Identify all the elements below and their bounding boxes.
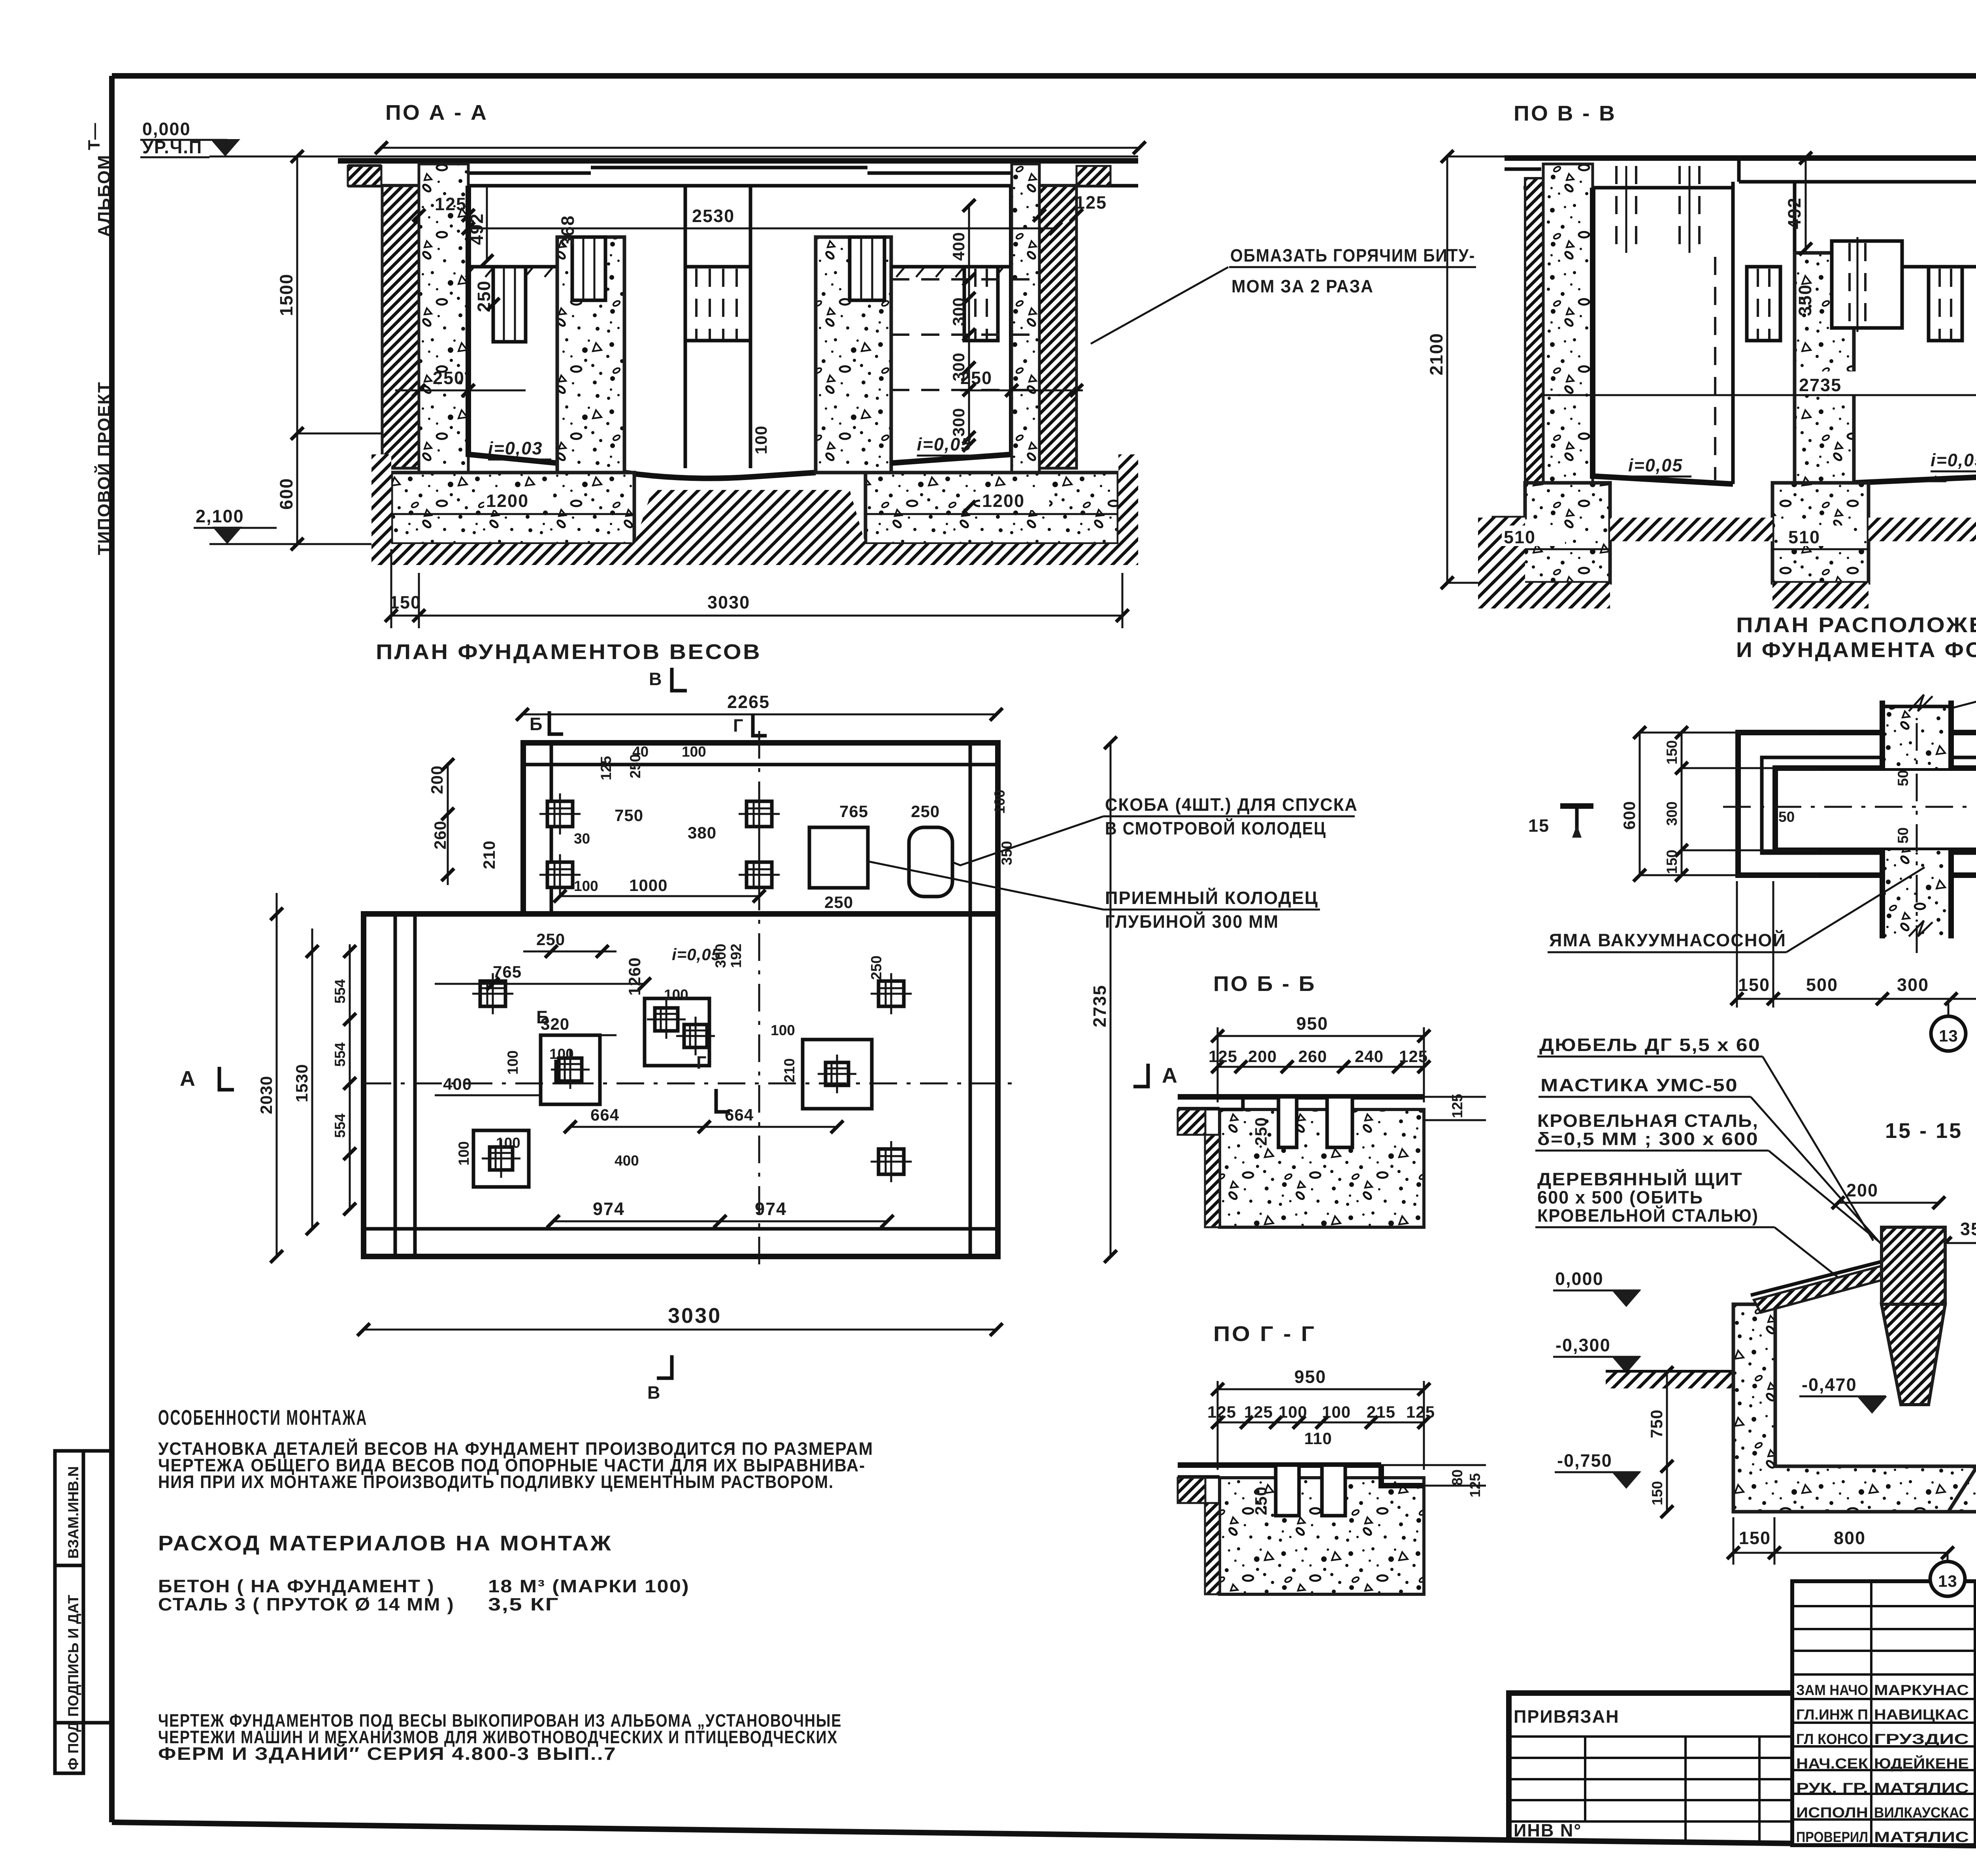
svg-text:100: 100 bbox=[752, 426, 770, 454]
svg-text:2530: 2530 bbox=[692, 206, 735, 226]
leaders from notes to curb bbox=[1763, 1057, 1873, 1241]
svg-text:i=0,03: i=0,03 bbox=[488, 438, 543, 458]
svg-text:192: 192 bbox=[728, 944, 744, 968]
A-A right footing concrete bbox=[865, 473, 1118, 544]
A-A top slab left hatch block bbox=[348, 166, 381, 186]
A-A left pit ledge bbox=[468, 265, 557, 269]
B-B top surface bbox=[1243, 1094, 1424, 1100]
svg-text:Г: Г bbox=[733, 716, 744, 736]
A-A left depth dimension chain bbox=[296, 156, 298, 544]
sheet frame top border bbox=[112, 73, 1976, 79]
svg-text:ОБМАЗАТЬ ГОРЯЧИМ БИТУ-: ОБМАЗАТЬ ГОРЯЧИМ БИТУ- bbox=[1230, 245, 1475, 266]
svg-text:2265: 2265 bbox=[727, 692, 770, 712]
svg-text:2,100: 2,100 bbox=[196, 506, 244, 526]
svg-text:ВЗАМ.ИНВ.N: ВЗАМ.ИНВ.N bbox=[65, 1466, 81, 1559]
A-A top slab band bbox=[348, 184, 1138, 188]
pit inner wall rect bbox=[1762, 757, 1976, 853]
svg-text:300: 300 bbox=[1897, 975, 1929, 995]
svg-text:СТАЛЬ 3 ( ПРУТОК Ø 14 ММ ): СТАЛЬ 3 ( ПРУТОК Ø 14 ММ ) bbox=[158, 1594, 454, 1614]
V-V middle wall left edge bbox=[1731, 182, 1735, 484]
svg-text:ПО А - А: ПО А - А bbox=[385, 101, 488, 124]
svg-text:2100: 2100 bbox=[1426, 333, 1446, 375]
svg-text:664: 664 bbox=[590, 1106, 619, 1124]
svg-text:Б: Б bbox=[530, 714, 543, 734]
svg-text:13: 13 bbox=[1938, 1572, 1957, 1590]
svg-text:ПОДПИСЬ И ДАТ: ПОДПИСЬ И ДАТ bbox=[65, 1595, 81, 1717]
svg-text:510: 510 bbox=[1504, 527, 1536, 547]
svg-text:-0,750: -0,750 bbox=[1557, 1450, 1612, 1471]
B-B concrete block bbox=[1220, 1109, 1424, 1227]
A-A central floor line bbox=[624, 473, 816, 478]
svg-text:1200: 1200 bbox=[486, 491, 529, 511]
svg-text:ДЮБЕЛЬ ДГ 5,5 х 60: ДЮБЕЛЬ ДГ 5,5 х 60 bbox=[1539, 1035, 1761, 1055]
stamp tie line mid bbox=[83, 1721, 112, 1725]
svg-text:125: 125 bbox=[1209, 1047, 1237, 1066]
svg-text:100: 100 bbox=[574, 878, 598, 894]
svg-text:АЛЬБОМ: АЛЬБОМ bbox=[94, 154, 114, 237]
svg-text:0,000: 0,000 bbox=[1555, 1269, 1604, 1289]
svg-text:ФЕРМ И ЗДАНИЙ″ СЕРИЯ 4.800-3: ФЕРМ И ЗДАНИЙ″ СЕРИЯ 4.800-3 ВЫП..7 bbox=[158, 1744, 617, 1764]
A-A right dim chain 400-300-300-300 bbox=[968, 205, 970, 445]
svg-text:0,000: 0,000 bbox=[142, 119, 191, 139]
svg-text:3030: 3030 bbox=[707, 592, 750, 612]
plan upper inner lines bbox=[550, 743, 553, 914]
stamp column box bbox=[55, 1451, 83, 1773]
svg-text:300: 300 bbox=[949, 352, 968, 381]
svg-text:ПРИЕМНЫЙ КОЛОДЕЦ: ПРИЕМНЫЙ КОЛОДЕЦ bbox=[1105, 888, 1318, 908]
svg-text:150: 150 bbox=[1738, 975, 1770, 995]
svg-text:100: 100 bbox=[549, 1046, 574, 1062]
A-A center-right pier concrete bbox=[816, 237, 891, 473]
sheet frame left border bbox=[109, 76, 115, 1822]
svg-text:ТИПОВОЙ ПРОЕКТ: ТИПОВОЙ ПРОЕКТ bbox=[94, 381, 114, 555]
pit left dim chain 600 bbox=[1639, 733, 1641, 875]
svg-text:50: 50 bbox=[1895, 827, 1911, 844]
svg-text:100: 100 bbox=[505, 1050, 521, 1075]
V-V middle footing bbox=[1772, 483, 1869, 583]
15-15 drain wedge hatched bbox=[1882, 1304, 1945, 1405]
wall panel upper segment bbox=[1882, 706, 1951, 768]
svg-text:215: 215 bbox=[1367, 1403, 1395, 1421]
plan right dim 2735 rotated bbox=[1110, 743, 1112, 1256]
A-A ground hatch center mound bbox=[634, 490, 865, 565]
svg-text:БЕТОН ( НА ФУНДАМЕНТ ): БЕТОН ( НА ФУНДАМЕНТ ) bbox=[158, 1576, 435, 1596]
svg-text:125: 125 bbox=[435, 194, 467, 214]
svg-text:150: 150 bbox=[1649, 1481, 1665, 1505]
G-G right ledge lines bbox=[1381, 1464, 1486, 1466]
svg-text:МАТЯЛИС: МАТЯЛИС bbox=[1874, 1780, 1969, 1796]
A-A ground hatch under left footing bbox=[371, 544, 636, 565]
svg-text:100: 100 bbox=[771, 1022, 795, 1038]
A-A formwork step dashed lines bbox=[891, 278, 1035, 281]
svg-text:125: 125 bbox=[1244, 1403, 1273, 1421]
svg-text:И ФУНДАМЕНТА ФОм 4: И ФУНДАМЕНТА ФОм 4 bbox=[1736, 638, 1976, 662]
svg-text:15 - 15: 15 - 15 bbox=[1885, 1119, 1963, 1143]
svg-text:1500: 1500 bbox=[276, 273, 296, 316]
G-G dim 950 bbox=[1218, 1388, 1424, 1390]
B-B dim 950 bbox=[1218, 1035, 1424, 1037]
svg-text:125: 125 bbox=[1399, 1047, 1428, 1066]
svg-text:В: В bbox=[647, 1383, 661, 1403]
B-B anchor slot 2 bbox=[1327, 1097, 1352, 1147]
V-V pit dashed line bbox=[1714, 257, 1716, 480]
svg-text:950: 950 bbox=[1296, 1013, 1328, 1034]
svg-text:260: 260 bbox=[1298, 1047, 1327, 1066]
svg-text:400: 400 bbox=[949, 232, 968, 261]
svg-text:400: 400 bbox=[615, 1153, 639, 1169]
A-A left pit anchor pocket bbox=[493, 267, 526, 342]
svg-text:500: 500 bbox=[1806, 975, 1838, 995]
A-A right outer wall bitumen hatch bbox=[1039, 186, 1077, 468]
svg-text:100: 100 bbox=[664, 987, 688, 1003]
A-A left pit outline bbox=[468, 186, 557, 463]
svg-text:350: 350 bbox=[999, 841, 1015, 865]
svg-text:600 х 500 (ОБИТЬ: 600 х 500 (ОБИТЬ bbox=[1537, 1187, 1703, 1207]
priyomny leader bbox=[868, 861, 1103, 910]
G-G right step bbox=[1381, 1465, 1424, 1486]
svg-text:750: 750 bbox=[615, 806, 643, 825]
svg-text:ГЛ КОНСО: ГЛ КОНСО bbox=[1796, 1731, 1868, 1747]
A-A right wall concrete bbox=[1012, 164, 1039, 473]
pit centerline bbox=[1723, 806, 1976, 808]
circled 13 bottom bbox=[1947, 1553, 1949, 1561]
V-V dim 2735 bbox=[1797, 371, 1872, 394]
A-A ground hatch under right footing bbox=[865, 544, 1138, 565]
svg-text:ПО Б - Б: ПО Б - Б bbox=[1213, 972, 1316, 996]
svg-text:300: 300 bbox=[949, 408, 968, 437]
A-A dim 2530 bbox=[468, 228, 1056, 230]
stamp divider 2 bbox=[55, 1721, 83, 1725]
svg-text:ЮДЕЙКЕНЕ: ЮДЕЙКЕНЕ bbox=[1874, 1755, 1969, 1772]
V-V left dim chain 2100 bbox=[1446, 156, 1448, 583]
A-A central platform column right edge bbox=[749, 186, 752, 468]
svg-text:100: 100 bbox=[992, 789, 1008, 814]
V-V middle pocket bbox=[1747, 267, 1780, 341]
plan main body outline bbox=[364, 914, 998, 1256]
plan left dim chain 554s bbox=[349, 944, 351, 1209]
G-G anchor slot 2 bbox=[1322, 1465, 1345, 1516]
V-V ground hatch between footings bbox=[1610, 518, 1772, 541]
A-A footing label 1200 right bbox=[980, 488, 1049, 510]
svg-text:600: 600 bbox=[1620, 801, 1638, 830]
svg-text:250: 250 bbox=[1252, 1117, 1270, 1146]
plan bottom dim 3030 bbox=[364, 1329, 996, 1331]
svg-text:300: 300 bbox=[1664, 801, 1680, 826]
15-15 pit left wall bbox=[1733, 1304, 1976, 1512]
svg-text:МАСТИКА УМС-50: МАСТИКА УМС-50 bbox=[1540, 1075, 1738, 1095]
plan centerlines bbox=[364, 1083, 1012, 1085]
plan right anchor top bbox=[879, 981, 904, 1006]
svg-text:15: 15 bbox=[1528, 816, 1550, 836]
V-V top slab heavy line bbox=[1505, 155, 1976, 161]
B-B wall hatch band bbox=[1205, 1135, 1220, 1227]
B-B left floor slab bbox=[1178, 1094, 1243, 1100]
V-V left pit wall line bbox=[1593, 188, 1733, 484]
svg-text:КРОВЕЛЬНОЙ СТАЛЬЮ): КРОВЕЛЬНОЙ СТАЛЬЮ) bbox=[1537, 1205, 1759, 1226]
svg-text:125: 125 bbox=[1467, 1473, 1483, 1497]
svg-text:200: 200 bbox=[1846, 1180, 1878, 1200]
svg-text:Б: Б bbox=[536, 1007, 550, 1027]
svg-text:100: 100 bbox=[682, 744, 706, 760]
svg-text:664: 664 bbox=[725, 1106, 754, 1124]
wall panel lower segment bbox=[1882, 850, 1951, 938]
circled 13 top bbox=[1948, 999, 1950, 1016]
svg-text:554: 554 bbox=[332, 1042, 348, 1067]
V-V left wall concrete bbox=[1543, 164, 1593, 518]
svg-text:Ф ПОД: Ф ПОД bbox=[65, 1722, 81, 1770]
svg-text:250: 250 bbox=[536, 930, 565, 949]
A-A center-left pier bolt notch bbox=[572, 237, 605, 300]
V-V hanging bolts top-left bbox=[1615, 166, 1618, 245]
V-V right pit floor bbox=[1854, 267, 1976, 483]
svg-text:50: 50 bbox=[1778, 809, 1795, 825]
15-15 dim 750 rotated left bbox=[1666, 1373, 1668, 1512]
svg-text:974: 974 bbox=[755, 1199, 787, 1219]
svg-text:УР.Ч.П: УР.Ч.П bbox=[142, 137, 202, 157]
svg-text:250: 250 bbox=[911, 802, 940, 821]
svg-text:800: 800 bbox=[1834, 1528, 1866, 1548]
svg-text:765: 765 bbox=[839, 802, 868, 821]
A-A top floor slab heavy line bbox=[338, 158, 1138, 164]
G-G dim row 125 125 100 100 215 125 bbox=[1218, 1422, 1424, 1424]
V-V top slab band bbox=[1523, 186, 1733, 190]
svg-text:1000: 1000 bbox=[629, 876, 667, 895]
svg-text:300: 300 bbox=[713, 944, 729, 968]
svg-text:ЗАМ НАЧО: ЗАМ НАЧО bbox=[1796, 1682, 1868, 1698]
A-A right pit anchor pocket bbox=[964, 267, 998, 341]
signature table rows bbox=[1792, 1605, 1976, 1607]
V-V left footing bbox=[1493, 483, 1610, 583]
A-A bitumen leader bbox=[1091, 267, 1228, 344]
svg-text:100: 100 bbox=[1322, 1403, 1351, 1421]
svg-text:100: 100 bbox=[496, 1135, 520, 1151]
svg-text:150: 150 bbox=[389, 592, 421, 612]
pit outer rect bbox=[1738, 733, 1976, 875]
svg-text:100: 100 bbox=[456, 1141, 472, 1166]
plan left dim chain 2030 bbox=[276, 893, 278, 1256]
svg-text:КРОВЕЛЬНАЯ СТАЛЬ,: КРОВЕЛЬНАЯ СТАЛЬ, bbox=[1537, 1111, 1759, 1131]
svg-text:100: 100 bbox=[1278, 1403, 1307, 1421]
plan main body inner lines bbox=[394, 914, 397, 1256]
svg-text:i=0,05: i=0,05 bbox=[917, 434, 971, 454]
svg-text:50: 50 bbox=[1895, 770, 1911, 786]
svg-text:510: 510 bbox=[1788, 527, 1820, 547]
pit tongue rect bbox=[1775, 768, 1976, 850]
svg-text:554: 554 bbox=[332, 979, 348, 1004]
V-V ground hatch below middle footing bbox=[1772, 583, 1869, 608]
15-15 bottom dims 150 800 bbox=[1733, 1552, 1948, 1554]
svg-text:125: 125 bbox=[1449, 1094, 1465, 1118]
svg-text:ГЛ.ИНЖ П: ГЛ.ИНЖ П bbox=[1796, 1706, 1868, 1723]
svg-text:250: 250 bbox=[1252, 1486, 1270, 1515]
G-G wall hatch band bbox=[1205, 1503, 1220, 1594]
V-V right pocket bbox=[1929, 267, 1962, 341]
svg-text:1260: 1260 bbox=[625, 957, 644, 996]
privyazan box bbox=[1509, 1693, 1792, 1754]
svg-text:150: 150 bbox=[1739, 1528, 1771, 1548]
svg-text:i=0,05: i=0,05 bbox=[1931, 450, 1976, 470]
B-B groove step bbox=[1241, 1097, 1245, 1109]
svg-text:492: 492 bbox=[467, 213, 487, 245]
A-A right footing side hatch bbox=[1118, 454, 1138, 544]
15-15 wooden shield sloped bbox=[1754, 1266, 1882, 1313]
svg-text:240: 240 bbox=[1355, 1047, 1384, 1066]
V-V central pier concrete bbox=[1795, 253, 1854, 518]
svg-text:974: 974 bbox=[593, 1199, 625, 1219]
15-15 dim 200 bbox=[1838, 1202, 1939, 1204]
svg-text:600: 600 bbox=[276, 478, 296, 510]
B-B right ledge lines bbox=[1424, 1096, 1486, 1098]
G-G top surface bbox=[1243, 1462, 1381, 1468]
svg-text:492: 492 bbox=[1784, 197, 1804, 229]
pit bottom dim row 150 500 300 600 750 bbox=[1737, 998, 1976, 1000]
svg-text:18 М³ (МАРКИ 100): 18 М³ (МАРКИ 100) bbox=[488, 1576, 690, 1596]
plan upper part outline bbox=[523, 743, 998, 914]
plan right anchor bottom bbox=[879, 1149, 904, 1174]
G-G anchor slot 1 bbox=[1276, 1465, 1299, 1516]
svg-text:δ=0,5 ММ ; 300 х 600: δ=0,5 ММ ; 300 х 600 bbox=[1537, 1129, 1759, 1149]
svg-text:150: 150 bbox=[1664, 849, 1680, 874]
V-V left outer wall bitumen hatch bbox=[1525, 178, 1543, 533]
svg-text:2030: 2030 bbox=[257, 1076, 275, 1114]
svg-text:НАВИЦКАС: НАВИЦКАС bbox=[1874, 1706, 1969, 1723]
stamp divider 1 bbox=[55, 1564, 83, 1567]
svg-text:ЯМА ВАКУУМНАСОСНОЙ: ЯМА ВАКУУМНАСОСНОЙ bbox=[1549, 930, 1786, 950]
svg-text:300: 300 bbox=[949, 297, 968, 326]
svg-text:ПО В - В: ПО В - В bbox=[1514, 102, 1616, 125]
svg-text:А: А bbox=[180, 1067, 197, 1091]
A-A top slab right hatch block bbox=[1077, 166, 1111, 186]
svg-text:400: 400 bbox=[443, 1075, 472, 1093]
svg-text:i=0,05: i=0,05 bbox=[1628, 455, 1683, 475]
plan left dim chain 1530 bbox=[311, 929, 313, 1229]
plan bottom dims 974 974 bbox=[553, 1221, 887, 1222]
stamp tie line top bbox=[83, 1449, 112, 1453]
G-G concrete block bbox=[1220, 1478, 1424, 1594]
plan receiving well square bbox=[809, 827, 868, 888]
svg-text:260: 260 bbox=[431, 821, 449, 849]
svg-text:125: 125 bbox=[1075, 192, 1107, 213]
svg-text:ПО Г - Г: ПО Г - Г bbox=[1213, 1322, 1316, 1346]
svg-text:В СМОТРОВОЙ КОЛОДЕЦ: В СМОТРОВОЙ КОЛОДЕЦ bbox=[1105, 818, 1326, 838]
svg-text:НИЯ ПРИ ИХ МОНТАЖЕ ПРОИЗВОДИТЬ: НИЯ ПРИ ИХ МОНТАЖЕ ПРОИЗВОДИТЬ ПОДЛИВКУ … bbox=[158, 1472, 834, 1492]
plan pads upper four anchors bbox=[547, 801, 573, 827]
plan pad left mid anchor bbox=[480, 981, 505, 1006]
A-A center-left pier concrete bbox=[557, 237, 624, 473]
A-A level flag 0.000 bbox=[210, 139, 240, 156]
A-A bottom dim 150 / 3030 bbox=[391, 615, 1122, 617]
A-A central anchor box bbox=[685, 267, 750, 341]
sheet frame bottom border bbox=[112, 1822, 1976, 1853]
svg-text:3,5 КГ: 3,5 КГ bbox=[488, 1594, 559, 1614]
B-B dim row 125 200 260 240 125 bbox=[1218, 1066, 1424, 1068]
A-A dim 492 rotated bbox=[486, 186, 488, 261]
svg-text:125: 125 bbox=[1406, 1403, 1435, 1421]
15-15 ground line left bbox=[1606, 1370, 1735, 1375]
svg-text:950: 950 bbox=[1294, 1367, 1326, 1387]
svg-text:350: 350 bbox=[1795, 284, 1815, 316]
A-A right pit ledge bbox=[891, 265, 1012, 269]
plan hatch door rounded bbox=[909, 827, 952, 897]
svg-text:1530: 1530 bbox=[292, 1064, 311, 1102]
title block signature table outline bbox=[1792, 1581, 1976, 1845]
A-A center-right pier bolt notch bbox=[850, 237, 884, 300]
A-A top overall dim line bbox=[381, 147, 1139, 149]
svg-text:150: 150 bbox=[1664, 740, 1680, 765]
svg-text:ПЛАН РАСПОЛОЖЕНИЯ ЯМЫ ВАКУУМНА: ПЛАН РАСПОЛОЖЕНИЯ ЯМЫ ВАКУУМНАСОСНОЙ bbox=[1736, 613, 1976, 637]
svg-text:ПРИВЯЗАН: ПРИВЯЗАН bbox=[1514, 1706, 1620, 1727]
plan pad lower-left with anchor bbox=[473, 1130, 529, 1187]
svg-text:80: 80 bbox=[1449, 1469, 1465, 1486]
plan dim 2265 bbox=[522, 714, 996, 716]
A-A left wall concrete bbox=[419, 164, 468, 473]
svg-text:-0,300: -0,300 bbox=[1556, 1335, 1611, 1355]
svg-text:ГЛУБИНОЙ 300 ММ: ГЛУБИНОЙ 300 ММ bbox=[1105, 912, 1279, 932]
A-A left footing side hatch bbox=[371, 454, 391, 544]
svg-text:ГРУЗДИС: ГРУЗДИС bbox=[1874, 1731, 1969, 1747]
svg-text:210: 210 bbox=[781, 1058, 798, 1083]
svg-text:Т—: Т— bbox=[85, 122, 103, 150]
svg-text:ИСПОЛН: ИСПОЛН bbox=[1796, 1804, 1868, 1821]
svg-text:МОМ ЗА 2 РАЗА: МОМ ЗА 2 РАЗА bbox=[1231, 276, 1374, 296]
A-A right pit outline bbox=[891, 186, 1012, 463]
V-V right pit ledge bbox=[1902, 265, 1976, 269]
svg-text:А: А bbox=[1162, 1064, 1179, 1087]
svg-text:125: 125 bbox=[598, 756, 614, 780]
svg-text:554: 554 bbox=[332, 1113, 348, 1138]
svg-text:30: 30 bbox=[574, 831, 590, 847]
V-V middle wall right edge bbox=[1793, 182, 1797, 483]
svg-text:2735: 2735 bbox=[1090, 985, 1110, 1027]
svg-text:ОСОБЕННОСТИ МОНТАЖА: ОСОБЕННОСТИ МОНТАЖА bbox=[158, 1406, 368, 1430]
A-A central platform column left edge bbox=[684, 186, 687, 468]
svg-text:ПЛАН ФУНДАМЕНТОВ ВЕСОВ: ПЛАН ФУНДАМЕНТОВ ВЕСОВ bbox=[376, 640, 762, 664]
svg-text:750: 750 bbox=[1647, 1409, 1666, 1438]
pit left dim chain 150 300 150 bbox=[1681, 733, 1683, 875]
svg-text:200: 200 bbox=[1248, 1047, 1277, 1066]
V-V central pier notch bbox=[1832, 241, 1902, 328]
B-B anchor slot 1 bbox=[1278, 1097, 1297, 1147]
V-V ground hatch below left footing bbox=[1478, 583, 1610, 608]
svg-text:ИНВ N°: ИНВ N° bbox=[1514, 1820, 1582, 1840]
svg-text:380: 380 bbox=[688, 823, 716, 842]
svg-text:МАТЯЛИС: МАТЯЛИС bbox=[1874, 1829, 1969, 1845]
15-15 pit floor extension bbox=[1948, 1334, 1976, 1512]
svg-text:ДЕРЕВЯННЫЙ ЩИТ: ДЕРЕВЯННЫЙ ЩИТ bbox=[1537, 1169, 1743, 1189]
svg-text:40: 40 bbox=[632, 744, 649, 760]
signature table columns bbox=[1870, 1581, 1872, 1845]
svg-text:368: 368 bbox=[558, 215, 578, 247]
A-A level line bbox=[209, 156, 1138, 158]
svg-text:ПРОВЕРИЛ: ПРОВЕРИЛ bbox=[1796, 1829, 1868, 1845]
15-15 dim row 350 250 125 500 125 bbox=[1945, 1242, 1976, 1244]
svg-text:ВИЛКАУСКАС: ВИЛКАУСКАС bbox=[1874, 1804, 1969, 1821]
plan right pad with anchor bbox=[803, 1040, 872, 1109]
A-A left footing concrete bbox=[391, 473, 634, 544]
svg-text:-0,470: -0,470 bbox=[1802, 1375, 1857, 1395]
svg-text:РУК. ГР.: РУК. ГР. bbox=[1796, 1780, 1868, 1796]
plan central pads cluster bbox=[645, 998, 709, 1066]
svg-text:13: 13 bbox=[1939, 1027, 1958, 1045]
svg-text:250: 250 bbox=[433, 368, 465, 388]
svg-text:РАСХОД МАТЕРИАЛОВ НА МОНТАЖ: РАСХОД МАТЕРИАЛОВ НА МОНТАЖ bbox=[158, 1531, 613, 1555]
svg-text:В: В bbox=[649, 669, 663, 689]
15-15 curb hatched block above bbox=[1882, 1227, 1945, 1304]
svg-text:250: 250 bbox=[868, 955, 884, 980]
skoba leader bbox=[952, 816, 1103, 865]
svg-text:Г: Г bbox=[696, 1053, 707, 1073]
svg-text:МАРКУНАС: МАРКУНАС bbox=[1874, 1682, 1969, 1698]
